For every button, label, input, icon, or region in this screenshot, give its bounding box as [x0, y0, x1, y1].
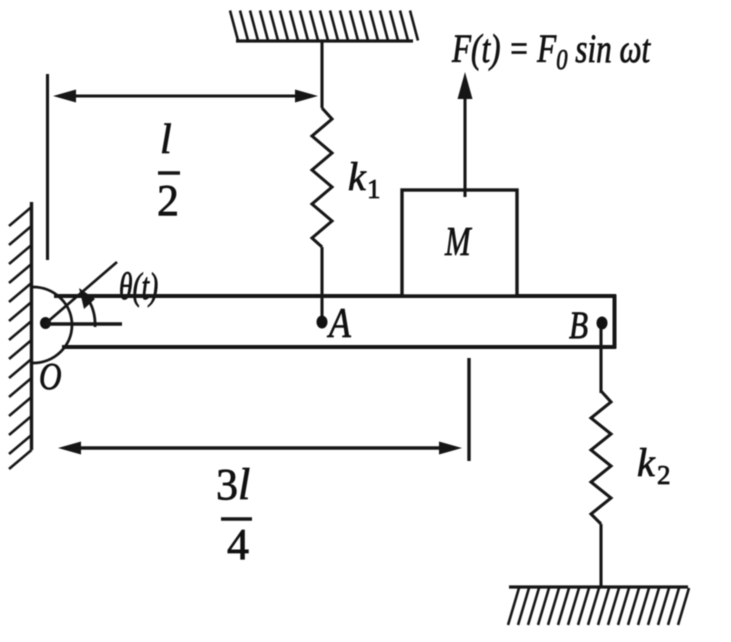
ground baseline	[509, 585, 688, 588]
dimension 3l/4: arrow line	[58, 442, 462, 455]
node B dot	[597, 317, 608, 330]
dimension 3l/4: right tick	[467, 358, 470, 461]
svg-text:2: 2	[657, 460, 671, 490]
left wall line	[30, 202, 33, 450]
fraction bar of 3l/4	[221, 517, 252, 521]
beam (lever bar)	[54, 295, 616, 349]
svg-text:θ(t): θ(t)	[119, 266, 158, 308]
dimension l/2: left tick	[46, 74, 49, 260]
label theta(t)	[119, 266, 158, 308]
rotated beam axis line from O	[45, 262, 117, 324]
reference line from O	[45, 322, 122, 325]
label l/2	[157, 117, 179, 225]
mass M block	[402, 190, 517, 296]
label A	[326, 300, 351, 346]
angle arc theta	[79, 288, 95, 327]
dimension l/2: arrow line	[53, 90, 318, 103]
fraction bar of l/2	[158, 171, 180, 174]
node A dot	[317, 316, 328, 329]
svg-text:B: B	[569, 304, 588, 347]
label k2	[637, 440, 671, 490]
svg-text:k: k	[348, 154, 367, 199]
svg-text:l: l	[160, 117, 172, 163]
label M	[444, 219, 472, 264]
svg-text:4: 4	[227, 520, 249, 569]
label F(t) = F0 sin wt	[451, 26, 651, 75]
pivot bracket arc at O	[33, 287, 72, 363]
svg-text:k: k	[637, 440, 656, 485]
wire B to spring k2	[599, 329, 602, 393]
ceiling support baseline	[236, 39, 413, 42]
svg-text:3l: 3l	[216, 460, 250, 509]
label B	[569, 304, 588, 347]
force arrow F(t)	[458, 72, 473, 197]
label k1	[348, 154, 381, 204]
pivot point O	[40, 317, 51, 329]
svg-text:A: A	[326, 300, 351, 346]
ground hatch strokes	[508, 588, 689, 625]
svg-text:2: 2	[157, 176, 179, 225]
spring k2	[591, 391, 611, 587]
label O	[39, 355, 62, 398]
wire ceiling to spring k1	[320, 41, 323, 108]
ceiling hatch strokes	[230, 11, 418, 41]
left wall hatch strokes	[9, 207, 32, 469]
spring k1	[312, 108, 332, 320]
svg-text:M: M	[444, 219, 472, 264]
svg-text:F(t) = F0 sin ωt: F(t) = F0 sin ωt	[451, 26, 651, 75]
svg-text:O: O	[39, 355, 62, 398]
svg-text:1: 1	[367, 174, 381, 204]
label 3l/4	[216, 460, 250, 569]
